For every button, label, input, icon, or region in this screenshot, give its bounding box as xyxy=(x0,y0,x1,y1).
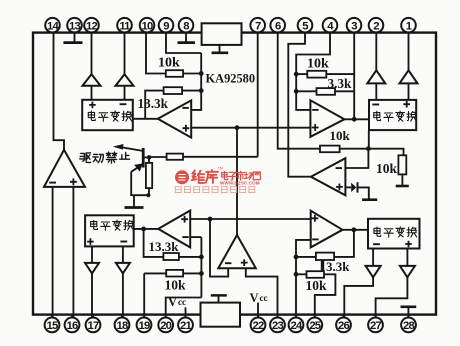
wire buffer to level-shift box U2 xyxy=(91,86,93,100)
U6 non-inverting input label xyxy=(181,216,188,223)
svg-text:9: 9 xyxy=(163,20,169,32)
U10 text dianpingbianhuan xyxy=(91,220,98,229)
wire buffer to pin17 xyxy=(92,273,93,317)
svg-text:2: 2 xyxy=(373,20,379,32)
svg-text:22: 22 xyxy=(253,320,264,332)
pin 15 xyxy=(51,315,53,318)
pin 4 xyxy=(323,18,338,33)
wire buffer to U5 xyxy=(375,83,377,100)
resistor R10 10k xyxy=(166,270,183,277)
pin 13 xyxy=(67,18,82,33)
svg-text:cc: cc xyxy=(178,297,186,307)
resistor R5 10k xyxy=(320,146,340,153)
op-amp U7 xyxy=(44,150,85,187)
wire U7 non-inverting input to pin16 xyxy=(72,187,74,318)
junction R3 bottom xyxy=(146,193,150,197)
ground at pin8 xyxy=(178,41,196,44)
U8 inverting input label xyxy=(225,262,231,264)
wire buffer to pin26 xyxy=(344,277,373,317)
node A vertical to U1 inverting input xyxy=(191,53,201,110)
wire pin14 to op-amp U7 output xyxy=(54,33,65,151)
pin 11 xyxy=(117,18,132,33)
resistor R11 3.3k xyxy=(316,253,334,260)
svg-text:WWW.DZSC.COM: WWW.DZSC.COM xyxy=(220,181,260,186)
wire buffer to pin27 xyxy=(376,277,408,317)
svg-text:4: 4 xyxy=(327,20,334,32)
svg-text:V: V xyxy=(250,291,259,305)
op-amp U1 xyxy=(158,100,191,137)
wire center vertical to op-amp U8 output xyxy=(236,128,238,235)
wire pin9 to node A xyxy=(166,33,201,53)
pin 20 xyxy=(165,315,167,318)
Q1 control line xyxy=(121,147,143,151)
svg-text:20: 20 xyxy=(160,320,171,332)
pin 27 xyxy=(375,315,377,318)
junction main bus to U8 xyxy=(235,125,240,130)
U3 non-inverting input label xyxy=(312,124,319,131)
U2 minus terminal xyxy=(120,103,127,105)
svg-text:12: 12 xyxy=(86,20,97,32)
svg-text:17: 17 xyxy=(88,320,99,332)
junction node F xyxy=(352,227,357,232)
capacitor bar above pin28 xyxy=(401,305,417,308)
svg-text:14: 14 xyxy=(47,20,59,32)
svg-text:10k: 10k xyxy=(376,161,398,176)
U10 plus terminal xyxy=(87,238,94,245)
U7 inverting input label xyxy=(49,182,56,184)
U5 plus terminal xyxy=(403,101,410,108)
svg-text:16: 16 xyxy=(67,320,78,332)
svg-text:10k: 10k xyxy=(165,277,187,292)
ground at pin13 xyxy=(63,41,82,44)
wire node D to resistor R9 xyxy=(144,229,164,257)
wire R9 to node E xyxy=(179,256,202,258)
svg-text:cc: cc xyxy=(260,293,268,303)
R3 bottom stub xyxy=(148,188,150,195)
svg-text:10k: 10k xyxy=(330,128,351,143)
svg-text:10k: 10k xyxy=(307,56,329,71)
buffer amp above pin18 xyxy=(116,263,130,274)
svg-text:26: 26 xyxy=(338,320,349,332)
svg-text:3: 3 xyxy=(351,20,357,32)
U5 bottom stub to node B wire xyxy=(368,130,370,149)
wire U1+ to U3+ bus xyxy=(191,127,310,129)
wire pin6 to resistor R5 xyxy=(278,33,320,149)
svg-text:27: 27 xyxy=(370,320,381,332)
U11 right stem xyxy=(406,249,408,266)
op-amp U3 xyxy=(310,100,344,137)
wire R7 to pin3 net xyxy=(326,73,354,75)
buffer amp under pin11 xyxy=(116,74,134,85)
diode D1 xyxy=(351,183,356,192)
svg-text:18: 18 xyxy=(117,320,128,332)
wire U4+ to diode D1 xyxy=(345,186,351,188)
pin28 stem to bar xyxy=(407,307,409,317)
svg-text:5: 5 xyxy=(302,20,308,32)
pin13 ground stem xyxy=(74,33,76,42)
wire U9 output to level-shift U11 xyxy=(343,229,369,231)
wire R11 to node F xyxy=(334,230,354,257)
wire Q1 collector to resistor R4 xyxy=(149,156,167,158)
level-shift box U5 xyxy=(369,100,416,130)
wire U8 non-inverting input to pin23 xyxy=(246,268,278,317)
buffer amp under pin2 xyxy=(367,70,385,83)
wire node E to pin20 Vcc xyxy=(166,298,202,318)
U11 left stem xyxy=(372,249,374,266)
level-shift box U10 xyxy=(85,215,134,246)
junction node E R10 xyxy=(199,271,204,276)
op-amp U9 xyxy=(311,211,343,248)
R3 top stub xyxy=(148,157,150,163)
pin 3 xyxy=(347,18,362,33)
U11 text dianpingbianhuan xyxy=(374,227,381,236)
top-center box ground stem xyxy=(219,45,221,52)
Q1 emitter xyxy=(131,164,143,172)
U5 text dianpingbianhuan xyxy=(374,111,381,120)
wire Q1 emitter down xyxy=(131,172,148,195)
pin 9 xyxy=(159,18,174,33)
level-shift box U11 xyxy=(368,219,420,249)
bottom-center box top bar xyxy=(211,294,227,297)
U5 minus terminal xyxy=(372,104,379,106)
U10 right stem xyxy=(122,246,124,263)
wire R10 to node E xyxy=(183,272,201,274)
junction node D xyxy=(141,227,146,232)
junction node G R11 xyxy=(294,255,299,260)
wire R10 node to pin19 xyxy=(143,273,145,317)
buffer amp above pin26 wire xyxy=(366,266,381,277)
resistor R7 10k xyxy=(307,71,326,78)
svg-text:10: 10 xyxy=(142,20,153,32)
U3 inverting input label xyxy=(312,109,318,111)
svg-text:15: 15 xyxy=(47,320,58,332)
wire U8 inverting input to bus junction xyxy=(210,219,228,277)
svg-text:KA92580: KA92580 xyxy=(206,72,256,86)
ground bar under D1 xyxy=(362,198,377,201)
wire level-shift U10 to U6 output xyxy=(134,228,159,230)
wire R8 to pin3 net xyxy=(335,90,354,92)
U6 inverting input label xyxy=(182,236,188,238)
U2 plus terminal xyxy=(89,102,96,109)
top-center component box xyxy=(202,23,242,45)
watermark dianzishichangwang text xyxy=(222,171,228,179)
op-amp U4 xyxy=(311,158,346,195)
R6 ground stem xyxy=(401,174,403,185)
svg-text:10k: 10k xyxy=(158,56,180,71)
wire pin5 to op-amp U4 output xyxy=(288,33,311,177)
svg-text:19: 19 xyxy=(139,320,150,332)
wire node G to resistor R11 xyxy=(296,256,316,258)
pin 12 xyxy=(84,18,99,33)
junction R8 left xyxy=(294,89,299,94)
wire U7 inverting input to pin15 xyxy=(52,187,54,318)
wire node B to U4 inverting input xyxy=(345,149,368,168)
U9 non-inverting input label xyxy=(312,215,319,222)
svg-text:23: 23 xyxy=(272,320,283,332)
watermark logo circle xyxy=(175,170,189,184)
wire pin12 to buffer xyxy=(91,33,93,75)
svg-text:3.3k: 3.3k xyxy=(328,76,352,91)
svg-text:V: V xyxy=(168,295,177,309)
svg-text:8: 8 xyxy=(183,20,189,32)
buffer amp under pin1 xyxy=(400,70,418,83)
pin 28 xyxy=(408,315,410,318)
wire R2 to node xyxy=(182,90,201,92)
pin 14 xyxy=(45,18,60,33)
svg-text:28: 28 xyxy=(403,320,414,332)
wire pin4 to U3 inverting input xyxy=(296,33,330,110)
wire R4 to pin7 xyxy=(183,33,258,157)
svg-text:3.3k: 3.3k xyxy=(326,259,350,274)
junction node G R12 xyxy=(294,272,299,277)
ground bar under R6 xyxy=(396,185,409,188)
junction lower bus xyxy=(208,217,213,222)
transistor Q1 base bar xyxy=(142,148,145,168)
watermark weiku text xyxy=(192,170,205,183)
pin 21 xyxy=(185,315,187,318)
svg-text:13: 13 xyxy=(69,20,80,32)
junction node R2 xyxy=(199,88,204,93)
pin 24 xyxy=(295,315,297,318)
svg-text:1: 1 xyxy=(406,20,412,32)
U9 inverting input label xyxy=(312,238,318,240)
svg-text:21: 21 xyxy=(180,320,191,332)
svg-text:TM: TM xyxy=(218,166,223,170)
pin 6 xyxy=(270,18,285,33)
pin 16 xyxy=(71,315,73,318)
wire pin11 to buffer xyxy=(124,33,126,75)
wire buffer to level-shift box U2 xyxy=(124,86,126,100)
wire D1 to ground xyxy=(358,187,369,198)
wire node to resistor R8 xyxy=(296,90,316,92)
IC package boundary box xyxy=(33,33,436,315)
junction node E R9 xyxy=(199,255,204,260)
resistor R12 10k xyxy=(307,271,325,278)
resistor R2 13.3k feedback wire xyxy=(145,91,163,119)
resistor R1 10k xyxy=(166,70,183,77)
pin 5 xyxy=(298,18,313,33)
pin 26 xyxy=(343,315,345,318)
junction node C xyxy=(352,117,357,122)
wire pin3 to node C xyxy=(353,33,355,120)
U11 minus terminal xyxy=(373,243,380,245)
U11 plus terminal xyxy=(405,241,412,248)
wire U9 inverting input to node G xyxy=(296,240,311,318)
U10 left stem xyxy=(91,246,93,263)
stray join mark between R11 and R12 xyxy=(321,260,324,271)
wire pin2 to buffer xyxy=(375,33,377,71)
U4 non-inverting input label xyxy=(336,184,343,191)
pin 1 xyxy=(401,18,416,33)
buffer amp above pin17 xyxy=(85,263,99,274)
pin 2 xyxy=(369,18,384,33)
buffer amp above pin27 wire xyxy=(400,266,415,277)
op-amp U6 xyxy=(158,211,190,248)
U7 non-inverting input label xyxy=(70,178,77,185)
drive inhibit label qudongjinzhi xyxy=(80,153,91,162)
svg-text:13.3k: 13.3k xyxy=(138,96,169,111)
wire U2 to U1 output xyxy=(133,118,158,120)
wire buffer to pin18 xyxy=(121,273,124,317)
wire U6 inverting input to node E xyxy=(190,236,201,238)
U1 non-inverting input label xyxy=(183,125,190,132)
resistor R3 vertical xyxy=(146,163,152,188)
pin 18 xyxy=(121,315,123,318)
bottom-center component box xyxy=(201,303,241,327)
ground bar under Q1 xyxy=(125,206,144,209)
U4 inverting input label xyxy=(336,167,342,169)
buffer amp under pin12 xyxy=(83,74,101,85)
Q1 emitter arrowhead xyxy=(134,163,143,171)
pin 22 xyxy=(257,315,259,318)
svg-text:6: 6 xyxy=(275,20,281,32)
pin21 stub xyxy=(185,307,187,317)
svg-text:13.3k: 13.3k xyxy=(149,239,180,254)
wire node G to resistor R12 xyxy=(296,273,307,275)
wire node to resistor R7 xyxy=(296,73,307,75)
level-shift box U2 (dianping bianhuan) xyxy=(82,100,133,130)
pin8 ground stem xyxy=(185,33,187,42)
resistor R6 10k vertical xyxy=(398,155,406,174)
U8 non-inverting input label xyxy=(241,259,248,266)
top-center box ground bar xyxy=(212,51,229,54)
op-amp U8 xyxy=(218,235,256,268)
wire node to resistor R10 xyxy=(144,272,166,274)
pin 19 xyxy=(143,315,145,318)
pin 23 xyxy=(277,315,279,318)
bottom-center box bar stem xyxy=(218,296,220,302)
junction Q1 collector xyxy=(147,155,152,160)
pin 8 xyxy=(179,18,194,33)
wire lower bus U6+ to U9+ xyxy=(190,218,311,220)
pin 7 xyxy=(250,18,265,33)
Q1 collector stub xyxy=(143,156,149,158)
ground stem under Q1 xyxy=(133,195,135,207)
U10 minus terminal xyxy=(120,241,127,243)
svg-text:7: 7 xyxy=(255,20,261,32)
junction R7 left xyxy=(294,72,299,77)
resistor R8 3.3k xyxy=(317,88,336,95)
wire R12 to pin25 xyxy=(315,274,336,317)
wire pin1 to buffer xyxy=(408,33,410,71)
pin 25 xyxy=(314,315,316,318)
wire buffer to U5 xyxy=(408,83,410,100)
svg-text:10k: 10k xyxy=(306,278,328,293)
pin22 stub xyxy=(257,303,259,318)
wire pin10 to resistor R1 xyxy=(146,33,166,74)
watermark slogan row xyxy=(175,187,181,193)
U2 text dianpingbianhuan xyxy=(88,111,95,120)
node E vertical xyxy=(200,237,202,297)
wire R5 to 10k shunt xyxy=(340,149,404,156)
junction node B xyxy=(366,146,371,151)
resistor R2 13.3k xyxy=(164,87,183,94)
pin 10 xyxy=(140,18,155,33)
svg-text:11: 11 xyxy=(119,20,130,32)
resistor R9 13.3k xyxy=(163,253,179,260)
resistor R4 xyxy=(167,154,183,160)
svg-text:25: 25 xyxy=(309,320,320,332)
svg-text:24: 24 xyxy=(291,320,303,332)
U1 inverting input label xyxy=(182,107,188,109)
wire R1 to node xyxy=(183,73,201,75)
pin 17 xyxy=(92,315,94,318)
Q1 control arrowhead xyxy=(113,144,124,150)
junction node R1 xyxy=(199,71,204,76)
wire U3 output to level-shift U5 xyxy=(344,118,369,120)
